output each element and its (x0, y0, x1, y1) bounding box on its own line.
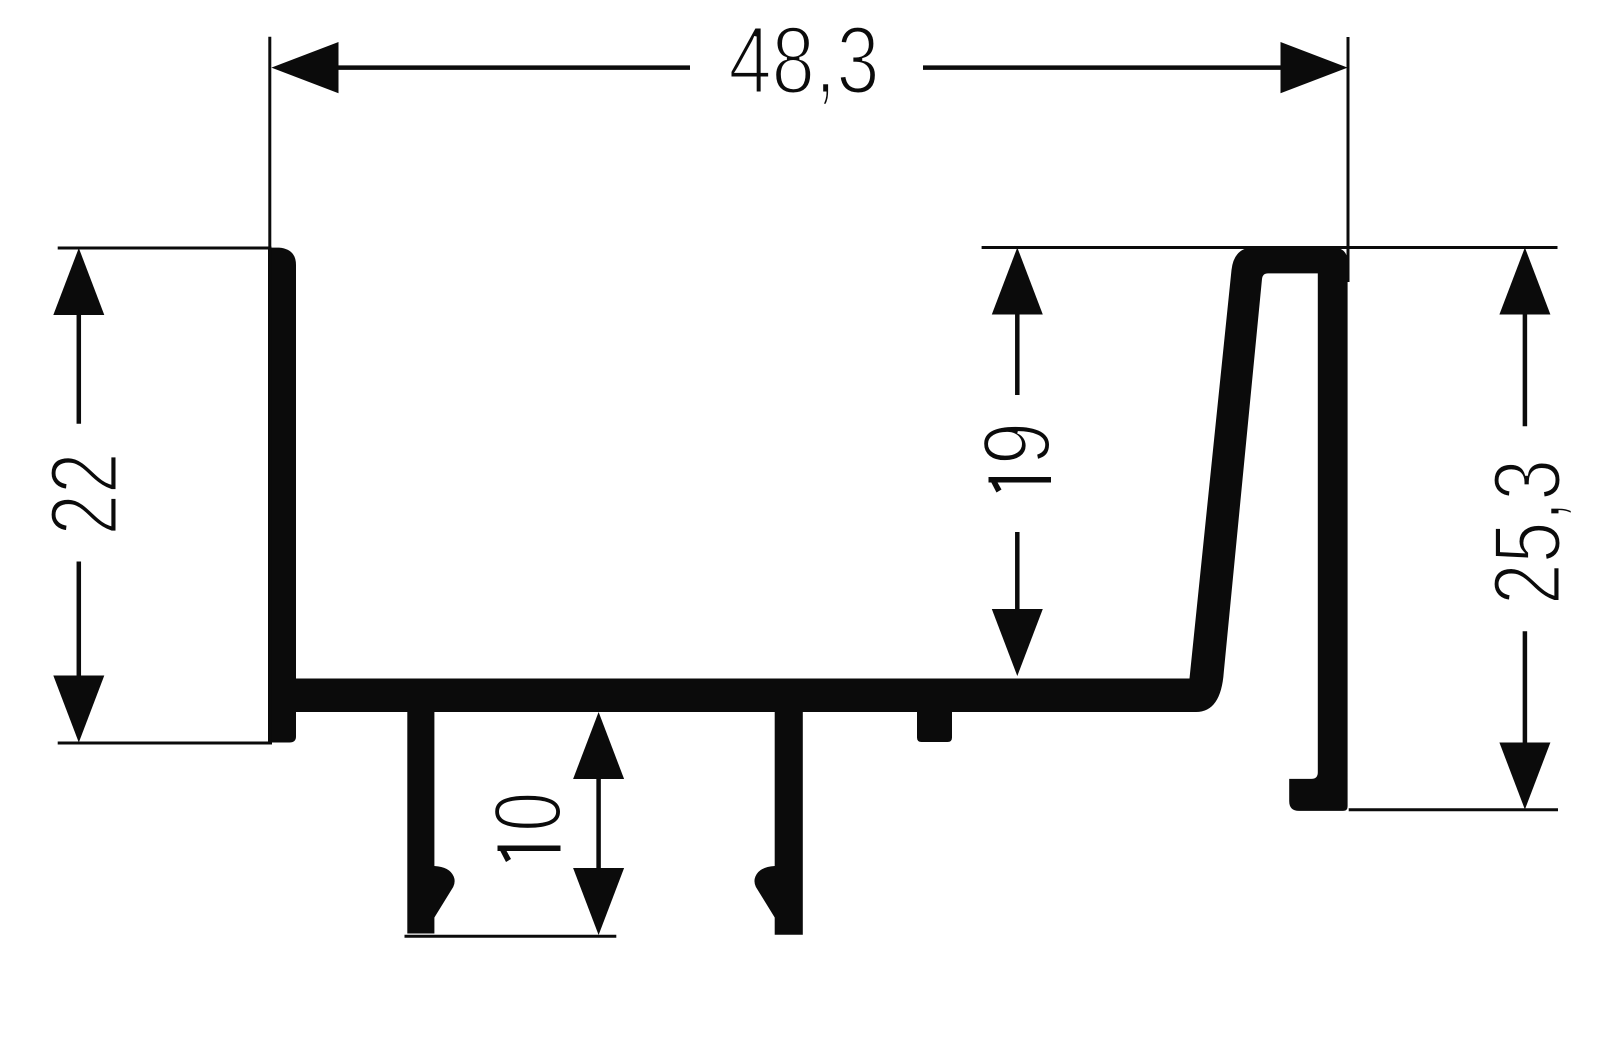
arrow 22 down (53, 676, 104, 743)
arrow 22 up (53, 248, 104, 315)
dimension line 22 upper segment (77, 312, 82, 424)
fin 2 (right screw-channel fin with left barb) (754, 712, 802, 935)
svg-text:48,3: 48,3 (729, 7, 880, 114)
profile main outline (left wall, bottom web, slanted wall, top lip, right wall, foot) (268, 247, 1348, 811)
dimension line 48,3 right segment (923, 65, 1283, 70)
extension line 22 top (58, 247, 272, 250)
arrow 25,3 down (1499, 743, 1550, 810)
extension line 10 bottom (405, 935, 617, 938)
svg-text:9: 9 (964, 422, 1071, 465)
dimension line 10 middle segment (596, 776, 601, 871)
extension line top shared (19 / 25,3) (982, 246, 1558, 249)
dimension line 25,3 lower segment (1523, 631, 1528, 745)
arrow 25,3 up (1499, 248, 1550, 315)
dimension line 19 upper segment (1015, 312, 1020, 395)
extension line 22 bottom (58, 742, 272, 745)
extension line left (48,3 left / profile left face) (268, 37, 271, 744)
dimension line 25,3 upper segment (1523, 312, 1528, 426)
small tab below web (917, 712, 952, 742)
arrow 19 up (992, 248, 1043, 315)
arrow 48,3 right (1281, 42, 1348, 93)
dimension line 48,3 left segment (336, 65, 690, 70)
fin 1 (left screw-channel fin with right barb) (407, 712, 454, 934)
extension line right (48,3 right / wall right face) (1347, 37, 1350, 282)
svg-text:0: 0 (475, 792, 582, 832)
dimension line 19 lower segment (1015, 532, 1020, 612)
svg-text:25,3: 25,3 (1474, 459, 1581, 605)
arrow 10 up (573, 712, 624, 779)
extension line 25,3 bottom (1349, 808, 1558, 811)
arrow 10 down (573, 868, 624, 935)
arrow 48,3 left (271, 42, 338, 93)
svg-text:22: 22 (31, 453, 138, 536)
arrow 19 down (992, 609, 1043, 676)
dimension line 22 lower segment (77, 562, 82, 679)
